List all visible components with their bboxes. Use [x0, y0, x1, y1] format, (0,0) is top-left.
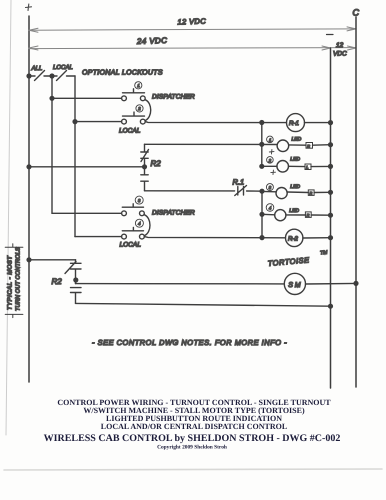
svg-text:WIRELESS CAB CONTROL by SHELDO: WIRELESS CAB CONTROL by SHELDON STROH - … [44, 433, 341, 444]
svg-text:2: 2 [137, 106, 141, 111]
svg-text:24 VDC: 24 VDC [136, 36, 168, 46]
wire bus2 [261, 191, 263, 237]
label indicator number 1 [267, 136, 274, 143]
svg-text:TURN OUT CONTROLS: TURN OUT CONTROLS [15, 247, 22, 311]
wire PB4 output to relay R2 [145, 237, 286, 238]
wire left rail [28, 16, 30, 382]
label minus [327, 34, 334, 36]
resistor box R row1 [306, 143, 313, 149]
wire right rail 24V [330, 48, 332, 388]
title block [44, 398, 341, 451]
LED D3 [276, 188, 287, 199]
label 12 VDC (right) [333, 42, 347, 58]
wire linkage arc PB1-PB2 [145, 100, 150, 121]
wire feeder B (local) [74, 76, 76, 237]
contact R1 (NC) [235, 186, 247, 196]
wire resistor to rail [311, 214, 330, 216]
svg-text:LOCAL: LOCAL [53, 64, 73, 71]
label TORTOISE TM [267, 250, 329, 268]
wire R1 to 24V rail [305, 122, 331, 124]
node junction bus1 top [260, 121, 264, 125]
wire 24VDC dimension line [29, 46, 356, 50]
pushbutton PB4 local [122, 227, 145, 239]
svg-text:DISPATCHER: DISPATCHER [152, 94, 195, 101]
svg-text:OPTIONAL LOCKOUTS: OPTIONAL LOCKOUTS [82, 70, 163, 77]
svg-text:3: 3 [138, 198, 141, 203]
svg-text:LED: LED [289, 208, 299, 214]
svg-text:TM: TM [320, 250, 329, 257]
wire lockout line [29, 75, 75, 77]
svg-text:LED: LED [290, 156, 300, 162]
wire feeder to pushbutton 3 [52, 212, 121, 214]
svg-text:L: L [306, 166, 308, 170]
wire bus2 to LED3 [262, 190, 276, 192]
svg-text:C: C [353, 8, 360, 18]
node junction left rail lockout [27, 74, 31, 78]
wire SM to 12V rail [306, 282, 357, 285]
node junction rail [329, 121, 333, 125]
label indicator number 2 [267, 157, 274, 164]
wire to pushbutton 1 [52, 97, 121, 99]
node junction [329, 165, 333, 169]
node junction contact mid [74, 278, 78, 282]
svg-text:2: 2 [268, 158, 272, 163]
node junction [260, 164, 264, 168]
bracket typical controls [5, 244, 23, 318]
svg-text:R: R [307, 214, 310, 218]
wire resistor to rail [311, 165, 331, 167]
wire resistor to rail [313, 144, 331, 147]
switch ALL lockout [35, 71, 45, 81]
wire relay contact R2 top entry to LED1 [145, 143, 278, 145]
contact R2 lower (NC) [65, 260, 81, 284]
node + (plus supply terminal) [26, 4, 32, 11]
svg-text:LOCAL AND/OR CENTRAL DISPATCH: LOCAL AND/OR CENTRAL DISPATCH CONTROL [101, 422, 287, 431]
contact R2 (NC, upper) [141, 144, 149, 174]
wire to pushbutton 2 [75, 121, 121, 123]
label indicator number 3 [266, 184, 273, 191]
relay coil R1 [287, 114, 305, 132]
motor SM (stall motor) [284, 273, 305, 294]
wire contact to stall motor SM [76, 283, 285, 285]
svg-text:R-2: R-2 [288, 235, 299, 242]
svg-text:S M: S M [288, 282, 301, 289]
wire resistor to rail [314, 191, 330, 193]
resistor box R row3 [308, 190, 314, 196]
wire linkage arc PB3-PB4 [145, 215, 150, 236]
wire LED2 to resistor [289, 165, 306, 167]
page edge shadow [6, 0, 11, 435]
contact R2 lower (NO) [71, 288, 82, 304]
LED D1 [277, 140, 289, 152]
svg-text:R2: R2 [52, 277, 63, 286]
wire PB2 output to relay R1 [145, 122, 286, 123]
node junction [260, 142, 264, 146]
pushbutton PB3 dispatcher [122, 204, 145, 216]
switch LOCAL lockout [57, 71, 67, 81]
label pushbutton number 4 [135, 219, 143, 227]
wire feeder A (dispatcher) [51, 76, 53, 213]
node junction [329, 213, 333, 217]
svg-text:4: 4 [269, 205, 272, 210]
svg-text:LOCAL: LOCAL [120, 242, 142, 249]
label plus [269, 150, 274, 155]
svg-text:LOCAL: LOCAL [119, 128, 141, 135]
label pushbutton number 1 [135, 82, 142, 89]
LED D4 [275, 210, 286, 221]
node junction [329, 143, 333, 147]
svg-text:1: 1 [137, 83, 139, 88]
pushbutton PB1 dispatcher [122, 89, 146, 101]
node junction 12V rail [354, 282, 358, 286]
resistor box R row4 [305, 212, 311, 218]
node junction [50, 96, 54, 100]
wire LED1 to resistor [289, 144, 306, 146]
wire LED4 to resistor [286, 214, 306, 216]
node junction contact mid [143, 165, 147, 169]
svg-text:12 VDC: 12 VDC [177, 16, 206, 26]
wire right rail 12V [355, 17, 357, 387]
node junction bus2 bottom [260, 236, 264, 240]
node junction [329, 236, 333, 240]
svg-text:ALL: ALL [31, 65, 43, 72]
svg-text:R.1: R.1 [233, 178, 245, 187]
scanner streak bottom [4, 469, 382, 470]
svg-text:3: 3 [269, 185, 272, 190]
svg-text:R: R [307, 144, 310, 148]
svg-text:R-1: R-1 [289, 120, 299, 127]
wire 12VDC dimension line [29, 27, 356, 32]
wire contact NO to 24V rail [76, 303, 331, 306]
pushbutton PB2 local [122, 112, 146, 124]
svg-text:LED: LED [292, 136, 302, 142]
contact R2 (NO, lower) [141, 175, 148, 191]
node junction [50, 74, 54, 78]
wire left rail to lower contact [29, 259, 76, 261]
label pushbutton number 3 [135, 196, 143, 204]
svg-text:VDC: VDC [333, 51, 347, 58]
node junction bus2 row4 [260, 212, 264, 216]
svg-text:- SEE CONTROL DWG NOTES. FOR M: - SEE CONTROL DWG NOTES. FOR MORE INFO - [92, 338, 287, 347]
svg-text:LED: LED [290, 184, 300, 190]
svg-text:R2: R2 [151, 159, 162, 168]
svg-text:4: 4 [138, 221, 141, 226]
LED D2 [277, 161, 289, 173]
wire R2 to 24V rail [303, 237, 331, 239]
wire bus1 [261, 123, 263, 167]
svg-text:1: 1 [269, 137, 271, 142]
wire LED3 to resistor [287, 191, 308, 194]
resistor box R row2 [305, 164, 311, 170]
label pushbutton number 2 [136, 105, 143, 112]
wire bus2 to LED4 [262, 213, 275, 216]
node junction left rail [27, 165, 31, 169]
relay coil R2 [286, 229, 303, 246]
svg-text:R: R [310, 192, 313, 196]
node junction bus2 top [260, 189, 264, 193]
svg-text:12: 12 [336, 42, 344, 49]
svg-text:TYPICAL - MOST: TYPICAL - MOST [7, 255, 14, 310]
wire contact bottom to bus2 [145, 190, 263, 192]
wire bus1 to LED2 [262, 165, 277, 167]
label indicator number 4 [266, 204, 274, 212]
svg-text:TORTOISE: TORTOISE [267, 255, 310, 268]
svg-text:Copyright 2009 Sheldon Stroh: Copyright 2009 Sheldon Stroh [157, 445, 227, 451]
node junction left rail [27, 258, 31, 262]
label plus [271, 170, 276, 175]
wire feeder to pushbutton 4 [75, 236, 121, 238]
wire left rail to contact [29, 166, 145, 168]
node junction 24V rail bottom [329, 304, 333, 308]
node junction [329, 190, 333, 194]
node junction [73, 120, 77, 124]
svg-text:DISPATCHER: DISPATCHER [152, 210, 195, 217]
